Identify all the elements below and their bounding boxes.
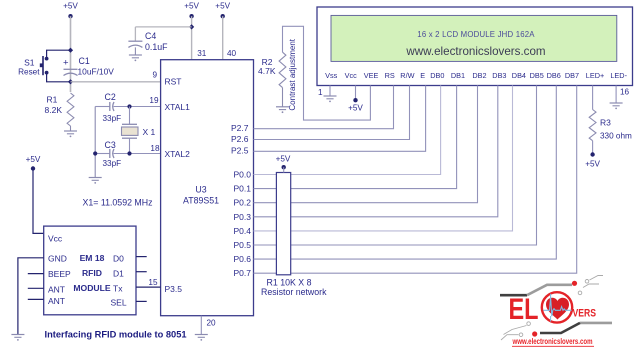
- svg-text:P3.5: P3.5: [165, 284, 183, 294]
- svg-text:P0.7: P0.7: [234, 268, 252, 278]
- svg-text:0.1uF: 0.1uF: [145, 42, 168, 52]
- svg-text:X 1: X 1: [143, 127, 156, 137]
- svg-text:RS: RS: [385, 71, 395, 80]
- svg-text:P2.7: P2.7: [231, 123, 249, 133]
- svg-text:+: +: [63, 58, 69, 69]
- svg-text:LED-: LED-: [610, 71, 627, 80]
- svg-text:E: E: [420, 71, 425, 80]
- svg-text:P0.2: P0.2: [234, 198, 252, 208]
- svg-text:P0.4: P0.4: [234, 226, 252, 236]
- svg-text:DB5: DB5: [530, 71, 544, 80]
- svg-text:330 ohm: 330 ohm: [600, 132, 632, 141]
- svg-text:P2.5: P2.5: [231, 146, 249, 156]
- svg-text:+5V: +5V: [215, 2, 230, 11]
- svg-text:Resistor network: Resistor network: [261, 287, 327, 297]
- svg-text:S1: S1: [24, 58, 35, 68]
- svg-text:GND: GND: [48, 253, 67, 263]
- svg-text:VEE: VEE: [364, 71, 379, 80]
- svg-text:R/W: R/W: [400, 71, 414, 80]
- svg-text:MODULE: MODULE: [73, 283, 111, 293]
- svg-text:Contrast adjustment: Contrast adjustment: [288, 38, 297, 110]
- svg-text:P0.3: P0.3: [234, 212, 252, 222]
- svg-text:BEEP: BEEP: [48, 269, 71, 279]
- svg-text:P2.6: P2.6: [231, 134, 249, 144]
- svg-text:DB7: DB7: [565, 71, 579, 80]
- svg-text:9: 9: [152, 71, 157, 80]
- svg-text:C4: C4: [145, 31, 156, 41]
- svg-text:D1: D1: [113, 269, 124, 279]
- svg-text:33pF: 33pF: [103, 114, 122, 123]
- svg-text:10uF/10V: 10uF/10V: [78, 66, 115, 76]
- svg-text:16 x 2 LCD MODULE JHD 162A: 16 x 2 LCD MODULE JHD 162A: [417, 30, 535, 39]
- svg-text:RFID: RFID: [82, 268, 102, 278]
- svg-text:XTAL2: XTAL2: [165, 149, 191, 159]
- svg-text:15: 15: [148, 278, 158, 287]
- svg-text:DB0: DB0: [430, 71, 444, 80]
- svg-text:4.7K: 4.7K: [258, 66, 276, 76]
- svg-text:LED+: LED+: [586, 71, 604, 80]
- svg-text:1: 1: [318, 88, 323, 97]
- svg-text:Reset: Reset: [18, 68, 40, 77]
- svg-text:Vcc: Vcc: [48, 233, 63, 243]
- svg-text:DB4: DB4: [512, 71, 526, 80]
- svg-text:U3: U3: [195, 185, 206, 195]
- svg-text:D0: D0: [113, 253, 124, 263]
- svg-text:+5V: +5V: [26, 155, 41, 164]
- svg-text:C3: C3: [105, 140, 116, 150]
- svg-text:Vss: Vss: [325, 71, 338, 80]
- svg-text:33pF: 33pF: [103, 159, 122, 168]
- svg-text:+5V: +5V: [585, 160, 600, 169]
- svg-text:Interfacing RFID module to 805: Interfacing RFID module to 8051: [45, 330, 187, 340]
- svg-text:19: 19: [149, 96, 159, 105]
- svg-text:EM 18: EM 18: [80, 253, 105, 263]
- svg-text:+5V: +5V: [276, 154, 291, 163]
- svg-text:40: 40: [227, 49, 237, 58]
- svg-text:ANT: ANT: [48, 284, 65, 294]
- svg-text:AT89S51: AT89S51: [183, 196, 219, 206]
- svg-text:DB3: DB3: [492, 71, 506, 80]
- svg-text:31: 31: [197, 49, 207, 58]
- svg-text:Tx: Tx: [113, 284, 123, 294]
- svg-text:RST: RST: [165, 77, 182, 87]
- svg-text:16: 16: [620, 88, 630, 97]
- svg-text:18: 18: [150, 144, 160, 153]
- svg-text:R3: R3: [600, 118, 611, 128]
- svg-text:SEL: SEL: [111, 298, 127, 308]
- svg-text:www.electronicslovers.com: www.electronicslovers.com: [512, 337, 593, 346]
- svg-text:C2: C2: [105, 92, 116, 102]
- svg-text:DB1: DB1: [451, 71, 465, 80]
- svg-text:VERS: VERS: [573, 308, 597, 320]
- svg-text:+5V: +5V: [63, 2, 78, 11]
- svg-text:www.electronicslovers.com: www.electronicslovers.com: [405, 45, 545, 58]
- svg-text:P0.5: P0.5: [234, 240, 252, 250]
- svg-text:EL: EL: [509, 293, 539, 326]
- svg-text:P0.6: P0.6: [234, 254, 252, 264]
- svg-text:X1= 11.0592 MHz: X1= 11.0592 MHz: [83, 198, 153, 208]
- svg-text:Vcc: Vcc: [345, 71, 358, 80]
- svg-text:P0.0: P0.0: [234, 170, 252, 180]
- svg-text:8.2K: 8.2K: [45, 105, 63, 115]
- svg-text:+5V: +5V: [348, 104, 363, 113]
- svg-text:DB2: DB2: [472, 71, 486, 80]
- svg-text:DB6: DB6: [547, 71, 561, 80]
- svg-text:20: 20: [207, 319, 217, 328]
- svg-text:ANT: ANT: [48, 296, 65, 306]
- svg-text:C1: C1: [79, 56, 90, 66]
- svg-text:R1: R1: [47, 95, 58, 105]
- svg-text:XTAL1: XTAL1: [165, 102, 191, 112]
- svg-text:P0.1: P0.1: [234, 184, 252, 194]
- svg-text:+5V: +5V: [184, 2, 199, 11]
